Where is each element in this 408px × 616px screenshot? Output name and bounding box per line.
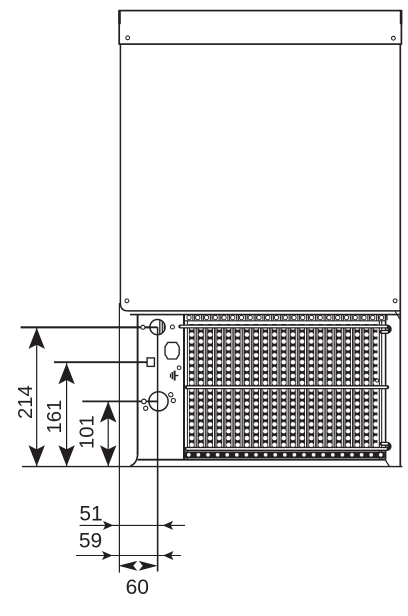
svg-text:101: 101 — [77, 415, 99, 449]
svg-text:161: 161 — [44, 400, 66, 434]
svg-text:59: 59 — [79, 530, 102, 553]
svg-text:51: 51 — [79, 503, 102, 526]
svg-text:214: 214 — [15, 385, 37, 419]
svg-text:60: 60 — [126, 576, 149, 599]
